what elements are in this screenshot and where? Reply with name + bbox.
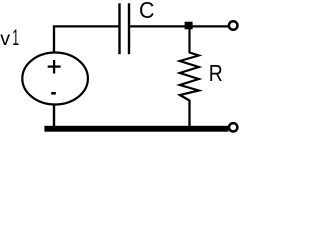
svg-text:1: 1 — [12, 25, 19, 50]
value label C — [139, 0, 155, 23]
wire top-left from source stub to capacitor left plate — [54, 26, 119, 51]
wire from capacitor right plate to top-right terminal — [130, 25, 229, 27]
label v 1 — [0, 25, 19, 50]
svg-text:v: v — [0, 28, 10, 50]
svg-text:R: R — [209, 60, 223, 86]
terminal top-right — [229, 21, 238, 30]
minus sign inside source — [51, 92, 56, 95]
node junction dot — [185, 22, 193, 30]
terminal bottom-right — [229, 123, 237, 131]
voltage source V1 ellipse — [22, 53, 88, 105]
ground rail — [44, 126, 228, 132]
svg-text:C: C — [139, 0, 155, 23]
capacitor C1 left plate — [118, 3, 120, 54]
wire source bottom to ground rail — [53, 105, 55, 128]
plus sign inside source — [48, 60, 61, 74]
capacitor C1 right plate — [128, 3, 130, 54]
value label R — [209, 60, 223, 86]
wire resistor bottom to ground rail — [188, 100, 190, 127]
resistor R1 zigzag — [180, 28, 199, 101]
